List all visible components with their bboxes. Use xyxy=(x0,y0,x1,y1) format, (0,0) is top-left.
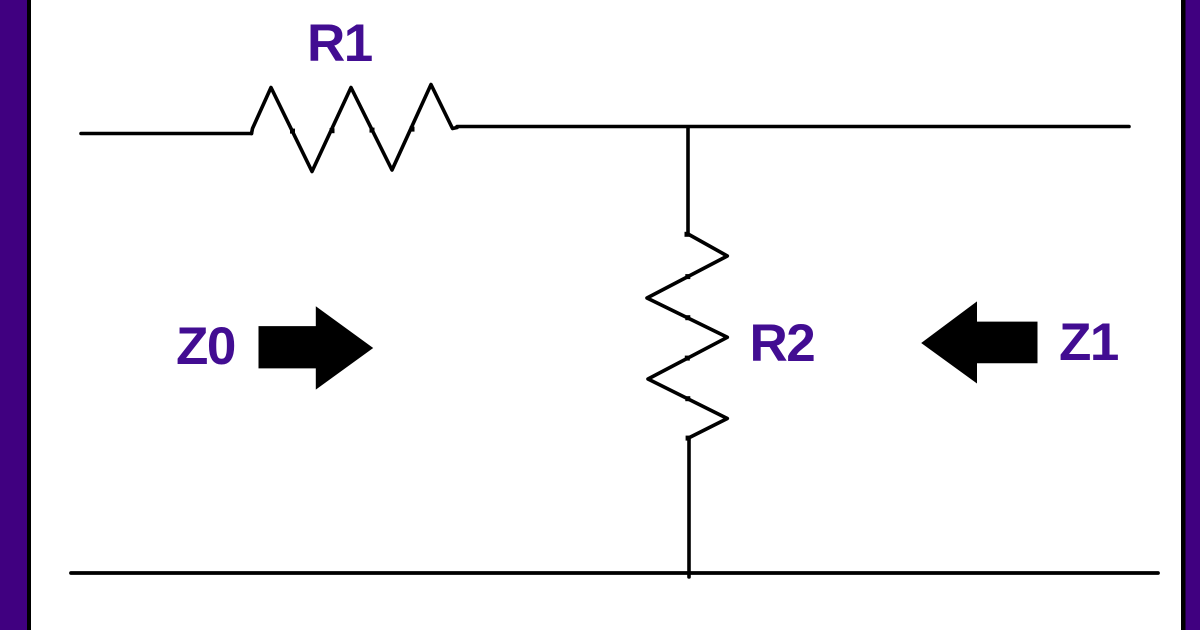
svg-text:Z1: Z1 xyxy=(1059,313,1118,372)
arrow: Z0 looking-in direction (points right) xyxy=(259,306,374,389)
svg-text:R1: R1 xyxy=(307,14,372,73)
wire: top-right segment xyxy=(457,125,1129,129)
svg-text:R2: R2 xyxy=(750,314,815,373)
R2 segment joint marks xyxy=(685,232,691,441)
wire: vertical segment from R2 to bottom wire xyxy=(687,438,691,577)
resistor R2 (vertical zigzag) xyxy=(647,234,727,438)
R1 segment joint marks xyxy=(290,127,415,134)
wire: bottom rail xyxy=(71,571,1158,575)
left black frame border xyxy=(27,0,31,630)
resistor R1 (horizontal zigzag) xyxy=(252,85,458,172)
arrow: Z1 looking-in direction (points left) xyxy=(921,301,1037,383)
svg-text:Z0: Z0 xyxy=(176,317,235,376)
wire: top-left segment xyxy=(81,132,252,136)
purple left margin bar xyxy=(0,0,27,630)
right black frame border xyxy=(1181,0,1186,630)
purple right margin bar xyxy=(1186,0,1200,630)
wire: vertical branch from top wire down to R2 xyxy=(686,127,690,234)
